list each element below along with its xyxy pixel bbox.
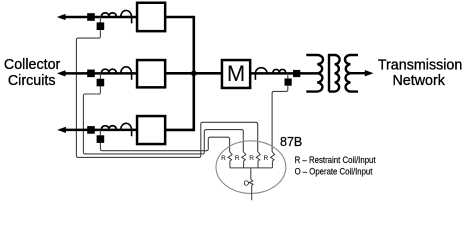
restraint coil R2 zigzag xyxy=(242,152,246,168)
relay 87B ellipse xyxy=(216,141,286,194)
bus junction dot xyxy=(191,71,197,77)
transformer T1 core/middle winding xyxy=(329,55,340,92)
wire secondary to arrow xyxy=(350,72,366,74)
svg-text:M: M xyxy=(227,61,245,86)
feeder 1 line with arrow xyxy=(57,14,66,20)
breaker box 2 xyxy=(137,60,165,87)
CT3 arc with tail xyxy=(121,123,132,136)
wire CT1 secondary run xyxy=(76,30,257,157)
svg-text:R: R xyxy=(249,155,254,162)
svg-text:R: R xyxy=(221,155,226,162)
CT2 polarity square xyxy=(99,73,101,79)
svg-text:Circuits: Circuits xyxy=(8,73,56,89)
feeder 2 line with arrow xyxy=(57,70,66,76)
svg-text:Transmission: Transmission xyxy=(378,57,463,73)
svg-text:O – Operate Coil/Input: O – Operate Coil/Input xyxy=(295,166,373,176)
CT2 arc with tail xyxy=(121,67,132,80)
arrow to transmission network xyxy=(365,70,374,76)
transformer T1 primary winding xyxy=(306,55,323,92)
CT1 polarity square xyxy=(99,17,101,23)
svg-text:R: R xyxy=(235,155,240,162)
wire CT3 secondary run xyxy=(100,137,229,151)
wire box2 to M xyxy=(165,72,222,75)
relay internal bus xyxy=(230,167,273,169)
wire M to transformer xyxy=(250,72,317,75)
CT3 winding loops xyxy=(102,126,117,129)
CT3 node square on line xyxy=(87,126,95,134)
operate coil O zigzag xyxy=(249,168,253,200)
CT4 arc with tail xyxy=(255,68,267,80)
meter box M xyxy=(222,60,250,88)
CT3 polarity square xyxy=(99,130,101,136)
CT4 polarity square xyxy=(287,73,289,79)
CT1 winding loops xyxy=(102,13,117,16)
svg-text:Collector: Collector xyxy=(4,57,61,73)
CT4 winding loops xyxy=(273,69,286,72)
restraint coil R1 zigzag xyxy=(228,152,232,168)
breaker box 3 xyxy=(137,116,165,144)
svg-text:R – Restraint Coil/Input: R – Restraint Coil/Input xyxy=(295,155,376,165)
wire box1 to bus xyxy=(165,17,194,73)
svg-text:87B: 87B xyxy=(280,134,302,149)
wire CT4 secondary run xyxy=(272,86,288,152)
CT2 winding loops xyxy=(102,69,117,72)
CT2 node square on line xyxy=(87,70,95,78)
svg-text:R: R xyxy=(264,155,269,162)
svg-text:Network: Network xyxy=(392,73,445,89)
wire box3 to bus xyxy=(165,73,194,130)
CT4 node square on line xyxy=(293,70,300,77)
feeder 3 line with arrow xyxy=(57,127,66,133)
svg-text:O: O xyxy=(244,181,250,188)
restraint coil R4 zigzag xyxy=(271,152,275,168)
wire CT2 secondary run xyxy=(83,86,243,154)
restraint coil R3 zigzag xyxy=(256,152,260,168)
transformer T1 secondary winding xyxy=(345,55,358,92)
breaker box 1 xyxy=(137,3,165,31)
CT1 node square on line xyxy=(87,13,95,21)
CT1 arc with tail xyxy=(121,10,132,23)
